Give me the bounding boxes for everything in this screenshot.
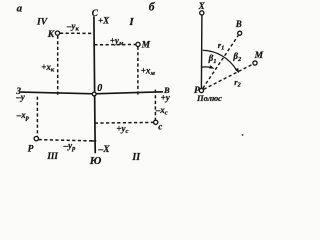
svg-text:II: II: [131, 152, 141, 163]
svg-text:М: М: [254, 51, 264, 61]
svg-text:Ю: Ю: [89, 155, 102, 167]
point P pole: [199, 88, 203, 92]
dashed line -xc from axis down to C: [154, 90, 156, 120]
horizontal axis y (Z-V): [21, 92, 164, 94]
point P: [34, 136, 38, 140]
svg-text:+у: +у: [161, 92, 171, 102]
dashed ray P-B: [203, 35, 239, 88]
dashed line -yp from P to axis: [39, 140, 96, 141]
dashed line -xp from axis down to P: [36, 97, 38, 137]
svg-text:с: с: [158, 122, 162, 132]
svg-text:В: В: [235, 19, 242, 29]
svg-text:–у: –у: [15, 92, 26, 102]
dashed line +ym from axis to M: [94, 44, 136, 46]
svg-text:0: 0: [97, 83, 102, 94]
point C: [154, 120, 158, 124]
svg-text:–Х: –Х: [98, 145, 111, 155]
svg-text:III: III: [46, 151, 58, 161]
svg-text:Х: Х: [198, 1, 206, 11]
dashed line +yc from axis to C: [95, 121, 154, 124]
svg-text:I: I: [128, 16, 134, 28]
dashed ray P-M: [204, 64, 253, 89]
dashed line +xk from K down to axis: [57, 36, 59, 96]
svg-text:+Х: +Х: [98, 16, 110, 26]
svg-text:К: К: [47, 30, 55, 40]
vertical axis X (C-Yu): [94, 16, 95, 153]
ink speck: [242, 134, 244, 136]
svg-text:Р: Р: [28, 145, 34, 155]
polar axis line X-P: [200, 15, 203, 88]
point B: [238, 31, 242, 35]
dashed line +xm from M down to axis: [137, 47, 139, 96]
origin circle O: [92, 92, 96, 96]
dashed line -yk from K to axis: [60, 32, 94, 34]
beta1 arc arrow: [202, 66, 211, 69]
svg-text:IV: IV: [36, 17, 48, 27]
tick -yp at axis: [91, 140, 96, 142]
svg-text:а: а: [17, 2, 23, 14]
svg-text:М: М: [141, 41, 151, 51]
point X top: [200, 11, 204, 15]
point M: [136, 42, 140, 46]
point M: [253, 61, 257, 65]
beta2 outer arc arrow: [203, 50, 237, 70]
point K: [55, 31, 59, 35]
svg-text:Полюс: Полюс: [196, 93, 222, 103]
